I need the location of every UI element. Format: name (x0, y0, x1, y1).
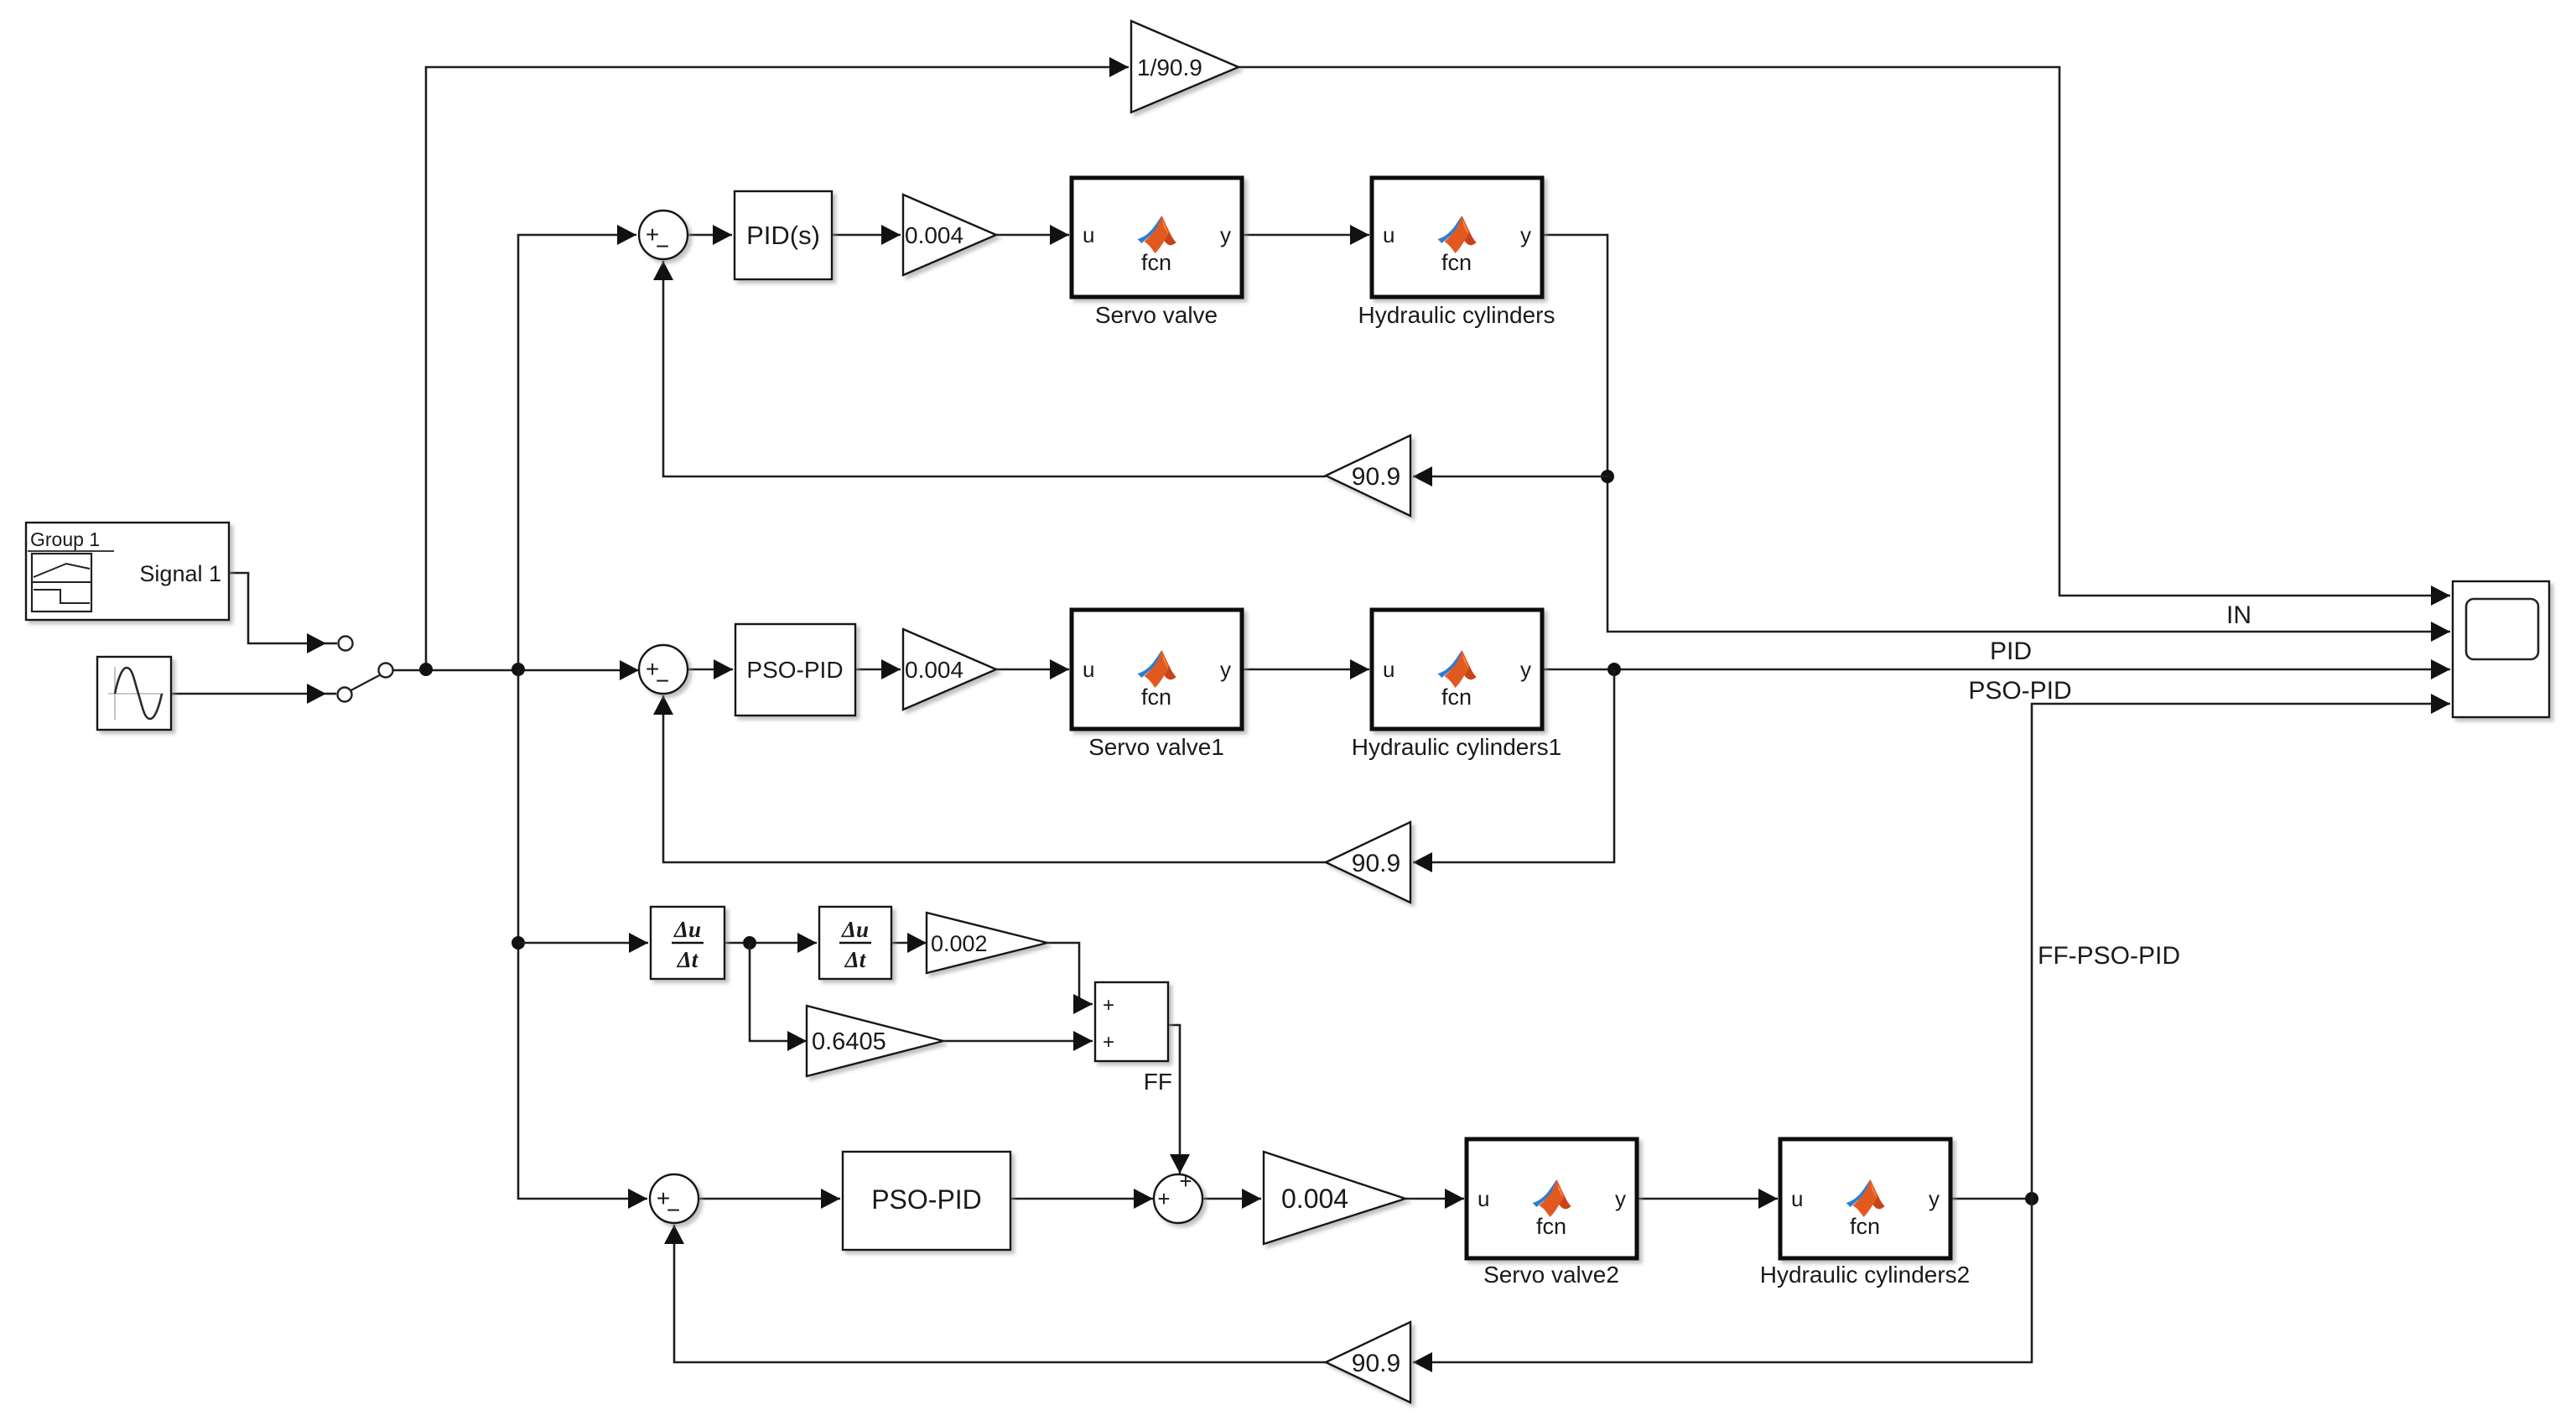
svg-text:0.004: 0.004 (1281, 1184, 1348, 1214)
Servo valve2 MATLAB Function block (1467, 1139, 1637, 1288)
svg-text:y: y (1520, 657, 1531, 682)
wire Sine Wave output to switch input 2 (171, 693, 326, 695)
wire Sum2 to PSO-PID (688, 669, 733, 671)
svg-text:PSO-PID: PSO-PID (871, 1184, 982, 1215)
svg-text:Servo valve2: Servo valve2 (1483, 1262, 1619, 1288)
svg-text:+: + (1103, 994, 1114, 1017)
derivative block 2 du/dt (819, 907, 891, 979)
wire gain 0.6405 to FF sum input 2 (943, 1040, 1093, 1043)
wire gain 0.002 to FF sum input 1 (1047, 943, 1093, 1004)
svg-text:Hydraulic cylinders2: Hydraulic cylinders2 (1760, 1262, 1971, 1288)
wire FF branch to derivative 1 (518, 942, 648, 945)
svg-text:fcn: fcn (1441, 684, 1472, 710)
wire gain 90.9 row1 to Sum1 minus input (663, 261, 1326, 476)
wire derivative 2 to gain 0.002 (891, 942, 927, 945)
wire Hydraulic cylinders2 to junction (1950, 1198, 2032, 1200)
wire branch up to gain 1/90.9 (426, 67, 1129, 669)
svg-text:0.004: 0.004 (905, 222, 963, 248)
Sum4 (bottom row) (650, 1174, 699, 1223)
Hydraulic cylinders2 MATLAB Function block (1760, 1139, 1971, 1288)
wire Servo valve2 to Hydraulic cylinders2 (1637, 1198, 1778, 1200)
svg-text:u: u (1083, 657, 1094, 682)
svg-text:fcn: fcn (1536, 1214, 1566, 1239)
svg-text:+: + (1157, 1186, 1170, 1211)
svg-text:PSO-PID: PSO-PID (746, 657, 843, 683)
wire PSO-PID to gain 0.004 row2 (855, 669, 901, 671)
svg-text:u: u (1383, 222, 1394, 247)
Sum5 (FF add) (1154, 1168, 1202, 1223)
gain 90.9 row4 feedback (1326, 1322, 1410, 1403)
svg-text:Δt: Δt (677, 947, 699, 972)
node junction PSO-PID feedback (1607, 663, 1621, 676)
svg-text:y: y (1520, 222, 1531, 247)
PID(s) controller block (735, 191, 832, 279)
wire switch output to Sum2 (393, 669, 639, 672)
svg-text:y: y (1220, 222, 1231, 247)
svg-text:FF-PSO-PID: FF-PSO-PID (2038, 942, 2180, 970)
svg-text:fcn: fcn (1141, 684, 1171, 710)
wire gain 0.004 bottom to Servo valve2 (1405, 1198, 1464, 1200)
node junction at x=618 main (512, 663, 525, 676)
wire Sum4 to PSO-PID bottom (699, 1198, 840, 1200)
gain 0.004 row1 (903, 195, 996, 275)
svg-text:Servo valve1: Servo valve1 (1088, 734, 1224, 760)
svg-text:Δu: Δu (673, 917, 701, 942)
gain 0.002 (927, 913, 1047, 973)
gain 0.004 bottom (1264, 1152, 1405, 1244)
svg-text:fcn: fcn (1441, 250, 1472, 275)
svg-text:Hydraulic cylinders: Hydraulic cylinders (1358, 302, 1555, 328)
switch input port 2 circle (338, 688, 352, 702)
wire PID(s) to gain 0.004 (832, 234, 901, 237)
Servo valve1 MATLAB Function block (1072, 610, 1242, 760)
Scope block (2453, 581, 2549, 717)
wire branch down to Sum4 (bottom row) (518, 669, 647, 1199)
svg-text:1/90.9: 1/90.9 (1137, 55, 1202, 81)
svg-text:+: + (1103, 1031, 1114, 1054)
gain 90.9 row1 feedback (1326, 435, 1410, 516)
svg-text:y: y (1220, 657, 1231, 682)
wire Hydraulic cylinders1 to scope port 3 (PSO-PID) (1542, 669, 2450, 671)
svg-text:−: − (656, 668, 669, 694)
wire gain 1/90.9 to scope port 1 (IN) (1239, 67, 2450, 596)
Signal Builder block Group 1 / Signal 1 (26, 523, 229, 620)
wire junction to gain 90.9 row1 (1413, 476, 1607, 478)
gain 0.6405 (807, 1006, 943, 1076)
node junction FF branch (512, 936, 525, 950)
FF sum rectangle (1095, 982, 1168, 1061)
svg-text:PID: PID (1990, 638, 2032, 665)
wire gain 90.9 row2 to Sum2 minus input (663, 695, 1326, 862)
wire derivative 1 to derivative 2 (724, 942, 817, 945)
svg-text:Δu: Δu (841, 917, 869, 942)
PSO-PID controller block row2 (735, 624, 855, 716)
wire Sum1 to PID(s) (688, 234, 732, 237)
wire gain 0.004 to Servo valve (996, 234, 1069, 237)
svg-text:FF: FF (1144, 1069, 1172, 1095)
Sum1 (PID row) (639, 211, 688, 259)
svg-text:Group 1: Group 1 (30, 528, 100, 550)
svg-text:y: y (1615, 1186, 1626, 1211)
svg-text:fcn: fcn (1850, 1214, 1880, 1239)
wire junction down to gain 90.9 row4 (1413, 1199, 2032, 1362)
svg-text:Signal 1: Signal 1 (139, 561, 221, 586)
wire Signal Builder output to switch input 1 (229, 573, 326, 643)
node junction at x=508 (419, 663, 433, 676)
svg-text:90.9: 90.9 (1352, 463, 1400, 491)
svg-text:u: u (1791, 1186, 1803, 1211)
gain 0.004 row2 (903, 629, 996, 710)
wire gain 90.9 row4 to Sum4 minus input (674, 1225, 1326, 1362)
wire gain 0.004 row2 to Servo valve1 (996, 669, 1069, 671)
wire Servo valve to Hydraulic cylinders (1242, 234, 1369, 237)
svg-text:fcn: fcn (1141, 250, 1171, 275)
derivative block 1 du/dt (651, 907, 724, 979)
switch output port circle (379, 664, 393, 678)
Hydraulic cylinders MATLAB Function block (1358, 178, 1555, 328)
svg-text:Servo valve: Servo valve (1095, 302, 1218, 328)
node junction after derivative 1 (743, 936, 756, 950)
svg-text:Hydraulic cylinders1: Hydraulic cylinders1 (1352, 734, 1562, 760)
svg-text:u: u (1478, 1186, 1489, 1211)
wire Hydraulic cylinders to scope port 2 (PID) (1542, 235, 2450, 632)
wire branch up to Sum1 (PID row) (518, 235, 636, 669)
wire FF sum output down to Sum5 (1168, 1025, 1180, 1174)
Hydraulic cylinders1 MATLAB Function block (1352, 610, 1562, 760)
svg-text:0.002: 0.002 (931, 931, 988, 956)
svg-text:IN: IN (2226, 601, 2251, 629)
wire Sum5 to gain 0.004 bottom (1202, 1198, 1261, 1200)
svg-text:PID(s): PID(s) (746, 221, 820, 250)
svg-text:u: u (1383, 657, 1394, 682)
svg-text:Δt: Δt (844, 947, 867, 972)
wire junction down to gain 90.9 row2 (1413, 669, 1614, 862)
svg-text:90.9: 90.9 (1352, 1350, 1400, 1377)
Servo valve MATLAB Function block (1072, 178, 1242, 328)
svg-text:0.004: 0.004 (905, 657, 963, 683)
svg-text:−: − (656, 233, 669, 259)
svg-text:y: y (1929, 1186, 1940, 1211)
svg-text:u: u (1083, 222, 1094, 247)
Sum2 (PSO-PID row) (639, 645, 688, 694)
svg-text:+: + (1179, 1168, 1192, 1194)
gain 1/90.9 (1131, 21, 1239, 112)
wire Servo valve1 to Hydraulic cylinders1 (1242, 669, 1369, 671)
switch lever (351, 675, 380, 690)
Sine Wave block (97, 657, 171, 730)
PSO-PID controller block bottom (843, 1152, 1010, 1250)
wire branch down to gain 0.6405 (750, 943, 807, 1041)
svg-text:0.6405: 0.6405 (812, 1028, 886, 1055)
node junction FF-PSO-PID (2025, 1192, 2038, 1205)
wire junction up to scope port 4 (FF-PSO-PID) (2032, 704, 2450, 1199)
svg-text:PSO-PID: PSO-PID (1968, 677, 2071, 705)
wire PSO-PID bottom to Sum5 (1010, 1198, 1153, 1200)
gain 90.9 row2 feedback (1326, 822, 1410, 903)
node junction PID feedback (1601, 470, 1614, 483)
svg-text:90.9: 90.9 (1352, 850, 1400, 877)
svg-text:−: − (667, 1197, 680, 1223)
switch input port 1 circle (339, 637, 353, 651)
